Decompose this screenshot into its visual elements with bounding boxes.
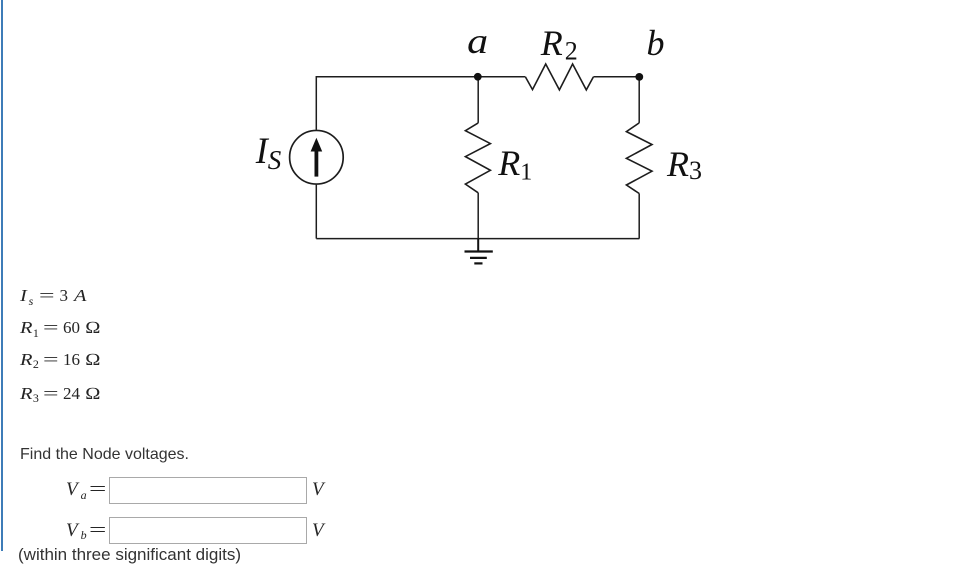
- Vb equals sign: [89, 520, 106, 542]
- svg-text:a: a: [467, 21, 488, 61]
- Va unit V: [312, 479, 324, 501]
- resistor R1 (vertical zigzag): [465, 123, 490, 193]
- prompt text: [20, 446, 189, 464]
- given value: Is = 3 A: [0, 286, 260, 308]
- svg-text:R2: R2: [540, 23, 578, 66]
- svg-text:IS: IS: [255, 131, 282, 175]
- wire: bottom rail: [316, 238, 639, 240]
- given value: R1 = 60 ohm: [0, 318, 260, 340]
- current source U1 circle: [290, 130, 344, 184]
- resistor R3 (vertical zigzag): [626, 123, 652, 194]
- Va equals sign: [89, 479, 106, 501]
- wire: current source bottom to bottom rail: [315, 185, 317, 239]
- footnote (cut off at bottom): [18, 545, 241, 565]
- Vb answer input box: [109, 517, 307, 544]
- Va answer input box: [109, 477, 307, 504]
- resistor R2 (horizontal zigzag): [525, 64, 593, 90]
- node a junction dot: [474, 73, 482, 81]
- svg-text:R3: R3: [666, 144, 702, 185]
- Vb label: [66, 520, 87, 542]
- given value: R3 = 24 ohm: [0, 384, 260, 406]
- wire: R1 bottom to bottom rail: [477, 193, 479, 239]
- Va label: [66, 479, 87, 501]
- wire: node a to R2 left terminal: [478, 76, 526, 78]
- given value: R2 = 16 ohm: [0, 350, 260, 372]
- left blue vertical border: [1, 0, 3, 551]
- Vb unit V: [312, 520, 324, 542]
- wire: R3 bottom to bottom rail: [638, 194, 640, 239]
- node b junction dot: [635, 73, 643, 81]
- ground symbol: [465, 239, 493, 264]
- wire: current source top up and right to node a: [316, 77, 478, 130]
- svg-text:b: b: [647, 23, 665, 63]
- wire: node a down to R1 top: [477, 77, 479, 123]
- current source arrow: [311, 138, 323, 177]
- wire: R2 right terminal to node b: [593, 76, 639, 78]
- svg-text:R1: R1: [497, 143, 532, 186]
- wire: node b down to R3 top: [638, 77, 640, 123]
